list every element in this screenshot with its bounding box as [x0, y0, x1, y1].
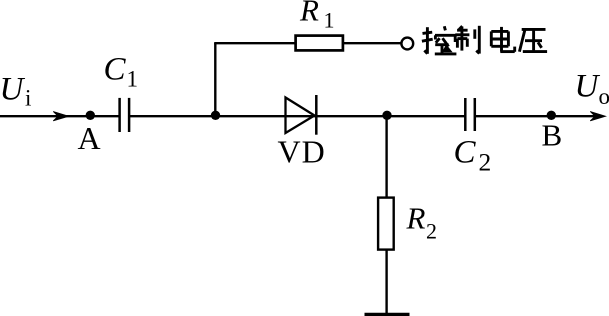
- label : control voltage text 控制电压 (drawn strokes): [422, 26, 547, 54]
- label C2: [454, 135, 492, 177]
- svg-text:U: U: [575, 69, 601, 105]
- svg-text:VD: VD: [278, 134, 326, 170]
- label R1: [299, 0, 335, 33]
- svg-text:R: R: [299, 0, 319, 28]
- wire : main input wire from left edge to C1: [0, 115, 119, 117]
- label Uo: [575, 69, 609, 110]
- svg-text:2: 2: [479, 148, 492, 177]
- node : junction at R2 branch: [382, 111, 391, 120]
- wire : R1 to control terminal: [344, 42, 401, 44]
- svg-text:U: U: [0, 72, 26, 108]
- label R2: [406, 201, 438, 244]
- wire : output arrowhead: [590, 112, 605, 121]
- svg-text:1: 1: [324, 8, 335, 33]
- node A: [86, 111, 95, 120]
- wire : R2 to ground: [385, 249, 387, 314]
- wire : vertical from node down to R2: [385, 116, 387, 197]
- char 控: [422, 26, 457, 54]
- wire : horizontal to R1: [214, 42, 295, 44]
- node B: [547, 111, 556, 120]
- svg-text:B: B: [542, 118, 563, 153]
- node : junction at top branch takeoff: [211, 111, 220, 120]
- wire : C1 to diode and through to node: [129, 115, 387, 117]
- node : control voltage terminal (open circle): [401, 38, 413, 50]
- svg-text:2: 2: [426, 219, 437, 244]
- label C1: [104, 52, 139, 92]
- svg-text:C: C: [104, 52, 127, 88]
- svg-text:i: i: [25, 86, 31, 111]
- char 电: [491, 27, 514, 52]
- wire : C2 to output: [475, 115, 603, 117]
- svg-text:1: 1: [127, 67, 139, 92]
- svg-text:o: o: [599, 84, 609, 109]
- ground: [365, 313, 410, 316]
- wire : node to C2: [387, 115, 465, 117]
- char 制: [455, 26, 479, 54]
- svg-text:A: A: [78, 120, 101, 156]
- label Ui: [0, 72, 31, 111]
- wire : vertical riser to R1 branch: [214, 43, 216, 116]
- diode VD: [286, 95, 317, 135]
- svg-text:C: C: [454, 135, 477, 171]
- wire : input arrowhead: [53, 112, 69, 121]
- char 压: [519, 29, 547, 51]
- capacitor C1: [120, 98, 130, 132]
- capacitor C2: [465, 98, 475, 131]
- resistor R1: [296, 36, 343, 51]
- svg-text:R: R: [406, 201, 426, 236]
- resistor R2: [378, 198, 394, 250]
